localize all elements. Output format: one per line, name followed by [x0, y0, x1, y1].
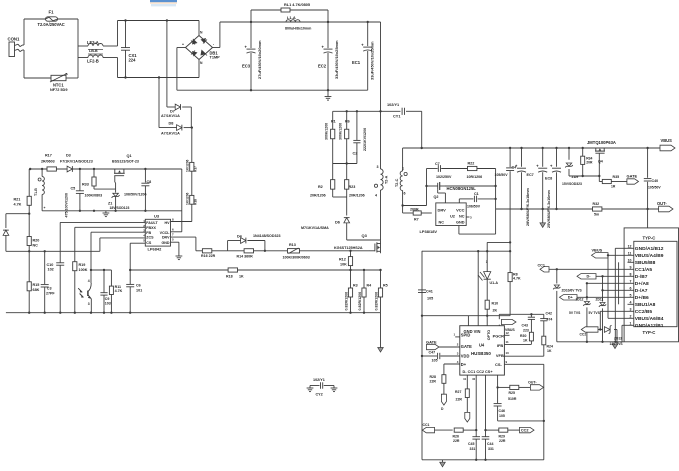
- svg-text:DRV: DRV: [162, 236, 170, 240]
- svg-text:R16 22R: R16 22R: [201, 254, 216, 258]
- svg-text:102: 102: [48, 268, 54, 272]
- svg-text:TYP-C: TYP-C: [643, 235, 656, 240]
- svg-text:R15: R15: [33, 283, 40, 287]
- svg-text:R2: R2: [318, 185, 323, 189]
- svg-text:4: 4: [88, 279, 90, 283]
- svg-text:T1MP: T1MP: [210, 56, 221, 60]
- svg-text:41: 41: [463, 377, 467, 381]
- svg-text:EC1: EC1: [352, 60, 361, 65]
- svg-text:CC1: CC1: [423, 423, 430, 427]
- svg-text:ZD11: ZD11: [596, 298, 604, 302]
- svg-text:3: 3: [88, 302, 90, 306]
- svg-text:LF2-A: LF2-A: [87, 40, 99, 45]
- svg-text:474: 474: [547, 318, 553, 322]
- svg-text:C47: C47: [429, 351, 436, 355]
- svg-text:C5: C5: [71, 187, 76, 191]
- svg-text:105: 105: [499, 414, 505, 418]
- svg-text:D-/B7: D-/B7: [635, 274, 648, 280]
- svg-text:C43: C43: [522, 324, 528, 328]
- svg-text:C3: C3: [47, 287, 52, 291]
- svg-text:103: 103: [105, 301, 111, 305]
- svg-text:6: 6: [630, 287, 632, 291]
- svg-text:F1: F1: [49, 10, 55, 15]
- svg-text:A7/1KV/1A: A7/1KV/1A: [161, 114, 180, 118]
- svg-text:9: 9: [630, 266, 632, 270]
- svg-text:510R: 510R: [508, 397, 517, 401]
- svg-text:C41: C41: [426, 290, 433, 294]
- svg-text:C8: C8: [147, 180, 152, 184]
- svg-text:NC: NC: [459, 215, 465, 219]
- svg-text:5: 5: [630, 294, 632, 298]
- svg-text:1K: 1K: [523, 339, 528, 343]
- svg-text:DRV: DRV: [438, 208, 447, 213]
- svg-text:10: 10: [506, 351, 510, 355]
- svg-text:20R/1206: 20R/1206: [349, 194, 365, 198]
- svg-text:TYP-C: TYP-C: [643, 330, 656, 335]
- svg-text:C40: C40: [652, 179, 659, 183]
- svg-text:7: 7: [630, 280, 632, 284]
- svg-text:HV: HV: [164, 221, 170, 225]
- svg-text:D+/B6: D+/B6: [635, 295, 649, 301]
- svg-text:1R: 1R: [611, 185, 616, 189]
- svg-text:ZCS: ZCS: [146, 236, 154, 240]
- svg-text:R7: R7: [414, 218, 419, 222]
- svg-text:GATE: GATE: [627, 173, 638, 178]
- svg-text:D6: D6: [335, 221, 340, 225]
- svg-text:BSS123/SOT-23: BSS123/SOT-23: [112, 160, 139, 164]
- svg-text:R28: R28: [430, 375, 436, 379]
- svg-text:5V TVS: 5V TVS: [569, 311, 581, 315]
- svg-text:KG6ST125HS2A: KG6ST125HS2A: [334, 246, 363, 250]
- svg-text:331: 331: [470, 447, 476, 451]
- svg-text:U4: U4: [479, 343, 485, 348]
- svg-text:NC: NC: [439, 221, 445, 225]
- svg-text:10: 10: [628, 259, 632, 263]
- svg-text:R14 360R: R14 360R: [237, 255, 254, 259]
- svg-text:R18: R18: [226, 275, 233, 279]
- svg-text:R13: R13: [289, 243, 296, 247]
- svg-text:CC2: CC2: [521, 429, 529, 433]
- svg-text:105: 105: [427, 297, 433, 301]
- svg-text:3: 3: [377, 165, 379, 169]
- svg-text:D8: D8: [169, 122, 175, 126]
- svg-text:R29: R29: [499, 434, 505, 438]
- svg-text:R24: R24: [547, 345, 553, 349]
- svg-text:VBUS: VBUS: [505, 328, 515, 332]
- svg-text:CC2/B5: CC2/B5: [635, 309, 653, 315]
- svg-text:VDD: VDD: [461, 353, 470, 358]
- svg-text:R20: R20: [33, 239, 40, 243]
- svg-text:R1: R1: [331, 120, 336, 124]
- svg-text:331: 331: [488, 447, 494, 451]
- svg-text:R11: R11: [115, 285, 121, 289]
- svg-text:R12: R12: [339, 258, 346, 262]
- svg-text:VBUS: VBUS: [661, 138, 673, 143]
- svg-text:EC3: EC3: [242, 64, 251, 69]
- svg-text:C2: C2: [353, 152, 358, 156]
- svg-text:U2: U2: [450, 215, 455, 219]
- svg-text:R27: R27: [455, 390, 461, 394]
- svg-text:FB: FB: [146, 231, 151, 235]
- svg-text:1K/1206: 1K/1206: [186, 192, 190, 205]
- svg-text:+: +: [182, 43, 184, 47]
- svg-text:R21: R21: [14, 198, 21, 202]
- svg-text:1N4148/SOD323: 1N4148/SOD323: [253, 234, 281, 238]
- svg-text:223: 223: [523, 329, 529, 333]
- svg-text:C45: C45: [468, 442, 474, 446]
- svg-text:2: 2: [630, 315, 632, 319]
- svg-text:102/250V: 102/250V: [436, 175, 452, 179]
- svg-text:105: 105: [432, 359, 438, 363]
- svg-text:R10: R10: [492, 302, 499, 306]
- svg-text:GND/A1/B12: GND/A1/B12: [635, 246, 664, 252]
- svg-text:Q4: Q4: [598, 160, 603, 164]
- svg-text:D+: D+: [568, 296, 574, 300]
- svg-text:100K/0803: 100K/0803: [85, 194, 103, 198]
- svg-text:102/Y1: 102/Y1: [313, 378, 325, 382]
- svg-text:R19: R19: [79, 263, 86, 267]
- svg-text:R38: R38: [194, 199, 198, 205]
- svg-text:NC: NC: [33, 244, 39, 248]
- svg-text:U1-A: U1-A: [490, 281, 499, 285]
- svg-text:27PF: 27PF: [46, 292, 55, 296]
- svg-text:R30: R30: [520, 334, 526, 338]
- svg-text:20R: 20R: [586, 161, 593, 165]
- svg-text:HUSB350: HUSB350: [471, 351, 491, 356]
- svg-text:GATE: GATE: [426, 339, 437, 344]
- svg-text:VCC: VCC: [456, 208, 464, 213]
- svg-text:40: 40: [472, 377, 476, 381]
- svg-text:5V TVS: 5V TVS: [589, 311, 601, 315]
- svg-text:RL1 4.7K/0805: RL1 4.7K/0805: [284, 3, 311, 7]
- svg-text:22R: 22R: [456, 398, 463, 402]
- svg-text:15V/SOD323: 15V/SOD323: [562, 182, 582, 186]
- svg-text:22R: 22R: [453, 439, 460, 443]
- svg-text:OUT-: OUT-: [657, 201, 667, 206]
- svg-text:R4: R4: [367, 284, 372, 288]
- svg-text:R17: R17: [45, 154, 52, 158]
- svg-text:R33: R33: [82, 183, 89, 187]
- svg-text:C10: C10: [47, 263, 54, 267]
- svg-text:ZD12: ZD12: [576, 298, 584, 302]
- svg-text:105/50V: 105/50V: [648, 186, 661, 190]
- svg-text:12V TVS: 12V TVS: [610, 342, 624, 346]
- svg-text:C46: C46: [499, 409, 505, 413]
- svg-text:R25: R25: [509, 391, 515, 395]
- svg-text:5m: 5m: [594, 213, 599, 217]
- svg-text:4: 4: [375, 194, 377, 198]
- svg-text:102/Y1: 102/Y1: [387, 103, 400, 107]
- svg-text:3: 3: [630, 308, 632, 312]
- svg-text:12: 12: [628, 245, 632, 249]
- svg-text:R22: R22: [468, 162, 475, 166]
- svg-text:4.7K: 4.7K: [513, 277, 521, 281]
- svg-text:R3: R3: [353, 284, 358, 288]
- svg-text:ZD13: ZD13: [614, 337, 622, 341]
- svg-text:VBUS/A6/B4: VBUS/A6/B4: [635, 316, 664, 322]
- svg-text:T2.0A/250VAC: T2.0A/250VAC: [38, 22, 65, 27]
- svg-text:2K: 2K: [493, 309, 498, 313]
- svg-text:OPTO: OPTO: [487, 330, 491, 341]
- svg-text:CC1/A5: CC1/A5: [635, 267, 653, 273]
- svg-text:Z1: Z1: [108, 202, 112, 206]
- svg-text:CS: CS: [146, 241, 152, 245]
- svg-text:VBUS: VBUS: [592, 249, 603, 253]
- svg-text:6: 6: [404, 192, 406, 196]
- svg-text:C42: C42: [546, 312, 552, 316]
- svg-text:11: 11: [628, 252, 632, 256]
- svg-text:D+: D+: [461, 362, 467, 367]
- svg-text:100K: 100K: [79, 268, 88, 272]
- svg-text:R35: R35: [613, 175, 620, 179]
- svg-text:FBXX: FBXX: [146, 226, 156, 230]
- svg-text:224: 224: [129, 58, 137, 63]
- svg-text:JMTQ100P63A: JMTQ100P63A: [587, 140, 616, 145]
- svg-text:68K: 68K: [33, 288, 40, 292]
- svg-text:20R/1206: 20R/1206: [310, 194, 326, 198]
- svg-text:27uF/450V/10x20mm: 27uF/450V/10x20mm: [257, 40, 262, 79]
- svg-text:C1: C1: [474, 192, 479, 196]
- svg-text:10K: 10K: [340, 263, 347, 267]
- svg-text:T2-C: T2-C: [395, 178, 399, 187]
- svg-text:GND: GND: [161, 241, 169, 245]
- svg-text:FAULT: FAULT: [146, 221, 158, 225]
- svg-text:33uF/450V/10x25mm: 33uF/450V/10x25mm: [334, 40, 339, 79]
- svg-text:U3: U3: [154, 214, 160, 219]
- svg-text:4.7K: 4.7K: [14, 203, 22, 207]
- svg-text:1: 1: [486, 260, 488, 264]
- svg-text:8: 8: [630, 273, 632, 277]
- svg-text:1: 1: [402, 167, 404, 171]
- svg-text:106/50V/1206: 106/50V/1206: [124, 193, 146, 197]
- svg-text:222/1KV/1206: 222/1KV/1206: [363, 128, 367, 151]
- svg-text:CY1: CY1: [393, 115, 401, 119]
- svg-text:C44: C44: [487, 442, 493, 446]
- svg-text:4.7K: 4.7K: [115, 289, 123, 293]
- svg-text:22R: 22R: [430, 379, 437, 383]
- svg-text:T2-A: T2-A: [385, 175, 389, 184]
- svg-text:VCCL: VCCL: [160, 231, 171, 235]
- svg-text:LP38/18V: LP38/18V: [420, 229, 438, 234]
- svg-text:22R: 22R: [499, 439, 506, 443]
- svg-text:0.82R/1206: 0.82R/1206: [375, 292, 379, 311]
- svg-text:4: 4: [630, 301, 632, 305]
- svg-text:105/50V: 105/50V: [495, 173, 509, 177]
- svg-text:CON1: CON1: [8, 37, 21, 42]
- svg-text:LP6842: LP6842: [148, 247, 163, 252]
- svg-text:CC1: CC1: [538, 263, 545, 267]
- svg-text:IFB: IFB: [497, 343, 503, 348]
- svg-text:800uH/8x10mm: 800uH/8x10mm: [285, 27, 311, 31]
- svg-text:Q3: Q3: [362, 233, 368, 238]
- svg-text:D-: D-: [586, 275, 591, 279]
- svg-text:LB-B: LB-B: [89, 49, 98, 53]
- svg-text:11: 11: [506, 340, 509, 344]
- svg-text:C6: C6: [136, 284, 141, 288]
- svg-text:10R/1206: 10R/1206: [467, 175, 483, 179]
- svg-text:475/100V/1206: 475/100V/1206: [65, 193, 69, 218]
- svg-text:VFB: VFB: [496, 353, 504, 358]
- svg-text:0.82R/1206: 0.82R/1206: [358, 292, 362, 311]
- svg-text:ZD10/6V TVS: ZD10/6V TVS: [562, 288, 583, 292]
- svg-text:SBU5/B8: SBU5/B8: [635, 260, 656, 266]
- svg-text:300K/1206: 300K/1206: [325, 123, 329, 140]
- svg-text:101: 101: [136, 289, 142, 293]
- svg-text:Q2: Q2: [434, 195, 439, 199]
- svg-text:GATE: GATE: [461, 344, 472, 349]
- svg-text:28V/680UF/6.3x18mm: 28V/680UF/6.3x18mm: [526, 187, 530, 226]
- svg-text:PGCR: PGCR: [493, 333, 505, 338]
- svg-text:R32: R32: [593, 202, 600, 206]
- svg-text:1K: 1K: [239, 275, 244, 279]
- svg-text:EC7: EC7: [527, 173, 534, 177]
- svg-text:R6: R6: [345, 120, 350, 124]
- svg-text:18V/SOD123: 18V/SOD123: [110, 206, 130, 210]
- svg-text:VBUS/A4/B9: VBUS/A4/B9: [635, 253, 664, 259]
- svg-text:2R/0603: 2R/0603: [41, 160, 55, 164]
- svg-text:F7/1KV/1A/SOD123: F7/1KV/1A/SOD123: [60, 160, 93, 164]
- svg-text:0.82R/1206: 0.82R/1206: [345, 292, 349, 311]
- svg-text:R26: R26: [453, 434, 459, 438]
- svg-text:SBU1/A8: SBU1/A8: [635, 302, 656, 308]
- svg-text:LF2-B: LF2-B: [87, 59, 99, 64]
- svg-text:+: +: [44, 206, 46, 210]
- svg-text:HCN08GN125L: HCN08GN125L: [447, 186, 477, 191]
- svg-text:EC8: EC8: [545, 177, 552, 181]
- svg-text:D+/A8: D+/A8: [635, 281, 649, 287]
- svg-text:R5: R5: [383, 284, 388, 288]
- svg-text:1: 1: [630, 322, 632, 326]
- svg-text:R23: R23: [349, 185, 356, 189]
- svg-text:Q1: Q1: [127, 154, 133, 158]
- svg-text:CS-: CS-: [495, 362, 502, 367]
- svg-text:1K: 1K: [547, 349, 552, 353]
- svg-text:M7/1KV/1A/SMA: M7/1KV/1A/SMA: [301, 226, 329, 230]
- svg-text:R37: R37: [194, 166, 198, 172]
- svg-text:EC2: EC2: [318, 64, 327, 69]
- svg-text:GND/A12/B1: GND/A12/B1: [635, 323, 664, 329]
- svg-text:D7: D7: [170, 110, 175, 114]
- svg-text:100K/300R/0603: 100K/300R/0603: [283, 256, 310, 260]
- svg-text:D- CC1 CC2 CS+: D- CC1 CC2 CS+: [463, 370, 494, 374]
- svg-text:ZD9: ZD9: [572, 175, 579, 179]
- svg-text:33uF/450V/10x25mm: 33uF/450V/10x25mm: [370, 41, 375, 80]
- svg-text:A7/1KV/1A: A7/1KV/1A: [161, 132, 180, 136]
- svg-text:C7: C7: [435, 162, 440, 166]
- svg-text:106/50V: 106/50V: [467, 205, 481, 209]
- svg-text:25V/680UF/6.3x16mm: 25V/680UF/6.3x16mm: [547, 189, 551, 228]
- svg-text:300K/1206: 300K/1206: [339, 123, 343, 140]
- svg-text:NTC1: NTC1: [53, 83, 64, 88]
- svg-text:-: -: [213, 43, 214, 47]
- svg-text:D-/A7: D-/A7: [635, 288, 648, 294]
- svg-text:SPID: SPID: [461, 332, 471, 337]
- svg-text:OUT-: OUT-: [528, 381, 537, 385]
- svg-text:T1-B: T1-B: [34, 188, 38, 196]
- svg-text:CC2: CC2: [580, 333, 587, 337]
- svg-text:D3: D3: [66, 154, 71, 158]
- svg-text:NF72 5D9: NF72 5D9: [50, 88, 67, 92]
- svg-text:GND: GND: [456, 221, 465, 225]
- svg-text:CY2: CY2: [316, 393, 323, 397]
- svg-text:200R: 200R: [410, 208, 419, 212]
- svg-text:1K/1206: 1K/1206: [186, 159, 190, 172]
